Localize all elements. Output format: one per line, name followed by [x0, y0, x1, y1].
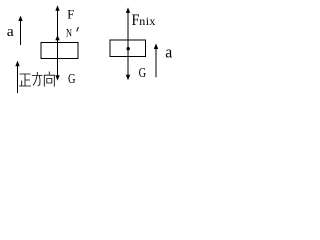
label G (right diagram): [139, 66, 147, 81]
svg-text:G: G: [139, 66, 147, 81]
svg-text:nix: nix: [139, 14, 156, 28]
arrow N' (up arrowhead above block M): [55, 35, 59, 40]
svg-text:F: F: [67, 7, 74, 22]
block m (right diagram box): [110, 40, 146, 57]
node center-of-mass dot in block m: [127, 47, 130, 50]
arrow G (down arrowhead bottom of left diagram): [55, 75, 59, 80]
arrow F (up arrowhead top of left diagram): [55, 5, 59, 11]
wire main vertical line of right diagram: [127, 11, 129, 76]
block M (left diagram box): [41, 43, 78, 59]
label F (left diagram): [67, 7, 74, 22]
arrow G (down arrowhead bottom of right diagram): [126, 75, 130, 80]
svg-text:G: G: [68, 72, 76, 87]
text 正方向 (drawn strokes): [19, 72, 54, 87]
arrow positive-direction (up arrow near 正方向): [15, 61, 19, 93]
svg-text:a: a: [7, 24, 14, 40]
svg-text:a: a: [165, 42, 173, 61]
svg-text:N: N: [66, 26, 72, 40]
label a (right): [165, 42, 173, 61]
wire main vertical line of left diagram (force line): [57, 9, 59, 77]
label G (left diagram): [68, 72, 76, 87]
arrow a (right acceleration arrow): [154, 43, 158, 77]
label a (left): [7, 24, 14, 40]
arrow F_nix (up arrowhead top of right diagram): [126, 7, 130, 12]
arrow a (left acceleration arrow): [18, 16, 22, 46]
label N': [66, 26, 78, 40]
label F_nix: [132, 12, 156, 29]
